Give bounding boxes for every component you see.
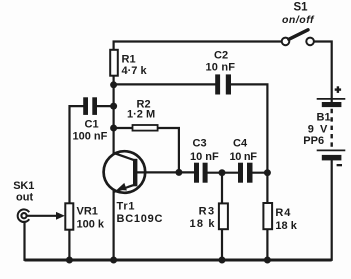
svg-text:10 nF: 10 nF: [190, 151, 219, 163]
svg-text:C2: C2: [214, 50, 228, 62]
svg-text:R4: R4: [275, 207, 291, 219]
svg-text:C1: C1: [85, 118, 99, 130]
svg-text:10 nF: 10 nF: [230, 151, 258, 163]
svg-text:4·7 k: 4·7 k: [122, 65, 148, 77]
svg-text:1·2 M: 1·2 M: [127, 109, 155, 121]
svg-text:PP6: PP6: [303, 135, 324, 147]
svg-text:18 k: 18 k: [190, 218, 216, 230]
svg-text:SK1: SK1: [13, 180, 34, 192]
svg-text:BC109C: BC109C: [117, 213, 163, 225]
svg-text:100 k: 100 k: [77, 218, 105, 230]
svg-text:Tr1: Tr1: [117, 201, 135, 213]
svg-text:S1: S1: [294, 1, 309, 13]
svg-text:100 nF: 100 nF: [73, 130, 108, 142]
svg-text:on/off: on/off: [282, 14, 315, 26]
svg-text:10 nF: 10 nF: [206, 61, 236, 73]
svg-text:C4: C4: [233, 138, 248, 150]
svg-text:out: out: [16, 192, 33, 204]
svg-text:R3: R3: [199, 206, 215, 218]
svg-text:C3: C3: [193, 138, 207, 150]
svg-text:R1: R1: [122, 53, 136, 65]
svg-text:9 V: 9 V: [308, 124, 328, 136]
svg-text:18 k: 18 k: [275, 220, 297, 232]
svg-text:VR1: VR1: [77, 205, 98, 217]
svg-text:B1: B1: [317, 111, 331, 123]
